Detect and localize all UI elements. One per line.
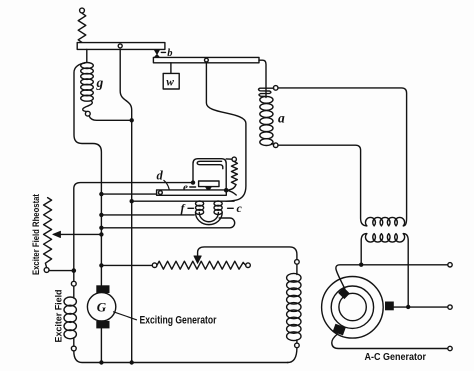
wire left bus to field rheostat 2 (101, 264, 152, 266)
svg-text:f: f (181, 201, 186, 215)
terminal exciter field top (71, 281, 76, 286)
relay coil c (right leg) (214, 201, 222, 215)
wire coil a bottom link (272, 144, 274, 145)
terminal coil a bottom (273, 143, 278, 148)
wire busbar B1 lead to coil g (86, 49, 88, 62)
transformer secondary winding (365, 234, 404, 242)
wire AC field to bottom line (288, 348, 297, 363)
label leader Exciting Generator (114, 312, 137, 320)
spring anchor terminal (232, 157, 236, 161)
AC generator field coil (296, 264, 298, 274)
junction solenoid left (191, 180, 195, 184)
wire G to bottom line (100, 328, 102, 362)
wire bus u-turn under relay (101, 218, 234, 228)
relay U core inner (199, 213, 218, 222)
wire upper-left brush to top terminal (336, 265, 448, 289)
wire junction whisker (226, 190, 236, 195)
meter w lead (170, 63, 172, 74)
junction bus y234 (99, 232, 103, 236)
coil a (260, 96, 273, 145)
terminal coil g bottom (85, 111, 90, 116)
wire busbar B2 stub to coil a (259, 60, 266, 97)
busbar B1 (77, 43, 165, 50)
svg-text:Exciter Field: Exciter Field (54, 290, 64, 343)
wire rheostat2 arrow to AC field (198, 247, 297, 260)
junction right-bus/relay (130, 199, 134, 203)
wire exciter field to solenoid (y=182.5) (74, 183, 193, 282)
wire coil g bottom to node (89, 116, 132, 121)
junction bus/lever (99, 192, 103, 196)
wire coil a entry loops (259, 88, 274, 96)
wire secondary right leg (403, 234, 408, 307)
svg-text:a: a (278, 111, 285, 126)
svg-text:d: d (157, 169, 164, 183)
rheostat arm arrowhead (53, 231, 61, 237)
transformer primary winding (365, 217, 404, 225)
wire busbar B1 to right bus (120, 49, 132, 362)
junction left-bus/rheostat (72, 268, 77, 273)
terminal on busbar B1 (118, 44, 122, 48)
rheostat2 arrow head (194, 256, 201, 264)
svg-text:Exciter Field Rheostat: Exciter Field Rheostat (31, 194, 41, 275)
svg-text:c: c (237, 201, 243, 215)
terminal AC top (448, 263, 452, 267)
resistor series top-left (78, 13, 86, 42)
meter w box (163, 73, 179, 89)
wire relay top (y=201.2) (132, 200, 234, 202)
AC generator middle circle (331, 286, 373, 328)
lever pivot circle (159, 191, 163, 195)
wire exciter field to bottom line (74, 351, 288, 363)
contact b (hourglass) (154, 50, 159, 58)
relay coil f (left leg) (196, 201, 204, 215)
busbar B2 (153, 57, 259, 62)
junction secondary-left (359, 263, 363, 267)
wire lower-left brush to bottom terminal (332, 334, 448, 349)
armature e (199, 181, 219, 187)
terminal rheostat2 right (246, 263, 251, 268)
field rheostat 2 (157, 261, 246, 269)
wire coil g top to left bus (74, 63, 101, 285)
label f dash (188, 207, 194, 209)
solenoid d outer (193, 159, 226, 191)
junction secondary-right (406, 305, 410, 309)
junction bus y265 (99, 263, 103, 267)
terminal rheostat bottom (44, 268, 49, 273)
junction solenoid right / lever / spring (224, 188, 229, 193)
junction bottom line right bus (130, 360, 134, 364)
wire rheostat to left bus (49, 270, 74, 272)
wire right brush to middle terminal (394, 306, 448, 308)
coil g (81, 63, 94, 102)
exciter field rheostat (44, 198, 52, 268)
terminal AC field bottom (295, 343, 300, 348)
lever bar (157, 190, 227, 195)
junction bus y215 (99, 213, 103, 217)
brush upper-left (338, 287, 350, 299)
svg-text:w: w (166, 77, 174, 89)
wire coil a top to transformer right leg (278, 88, 407, 226)
svg-text:Exciting Generator: Exciting Generator (140, 315, 218, 327)
brush lower-left (333, 324, 346, 336)
wire bus to relay (y=215) (101, 214, 194, 216)
wire secondary left leg (361, 234, 367, 265)
terminal AC bottom (448, 346, 452, 350)
AC generator outer circle (322, 277, 384, 339)
wire busbar B2 to regulator (206, 63, 246, 201)
terminal coil a top (273, 86, 278, 91)
terminal exciter field bottom (71, 346, 76, 351)
exciting generator G brush top (96, 285, 109, 293)
junction coil-g/wire (130, 118, 134, 122)
label c dash (228, 207, 234, 209)
label d leader (164, 180, 170, 194)
wire coil g tail squiggle (83, 101, 93, 112)
svg-text:G: G (97, 300, 107, 315)
spring lower hook (229, 185, 237, 191)
AC generator inner circle (339, 293, 366, 320)
junction bus y228 (99, 226, 103, 230)
spring (231, 162, 237, 185)
terminal top-left (80, 8, 85, 13)
terminal AC middle (448, 305, 452, 309)
exciting generator G brush bottom (96, 321, 109, 329)
solenoid d inner hairpin (197, 161, 223, 168)
exciting generator G body (87, 293, 115, 321)
relay U core outer (196, 213, 223, 225)
wire coil a bottom to transformer left leg (278, 145, 367, 226)
terminal on busbar B2 (205, 58, 209, 62)
terminal AC field top (295, 260, 300, 265)
wire bus to lever (101, 193, 156, 195)
svg-text:g: g (96, 75, 104, 90)
svg-text:A-C Generator: A-C Generator (365, 351, 427, 363)
label b dash (161, 51, 165, 53)
contact point under e (206, 187, 212, 192)
exciter field coil (73, 286, 75, 298)
wire rheostat arm (60, 233, 101, 235)
label e dash (190, 186, 196, 188)
terminal rheostat2 left (152, 263, 157, 268)
brush right (385, 302, 394, 311)
junction bottom line left bus (99, 360, 103, 364)
solenoid support to spring anchor (226, 158, 232, 160)
